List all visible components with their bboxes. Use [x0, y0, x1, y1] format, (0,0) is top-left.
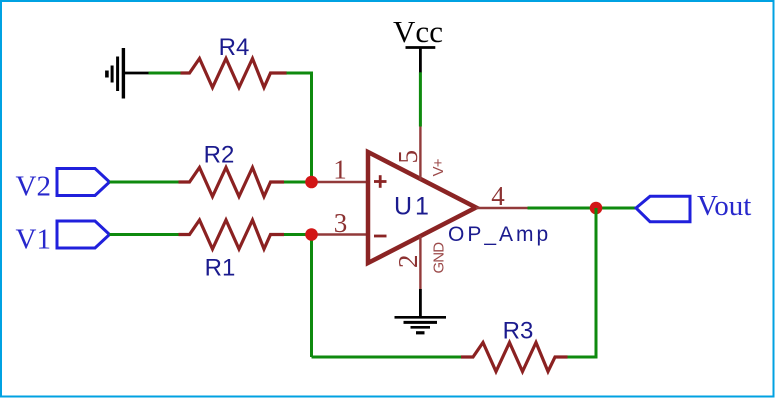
wire U1 pin 4 output: [476, 207, 528, 209]
port V2: [57, 169, 110, 196]
wire pin4 to output node: [528, 207, 637, 210]
node A junction dot: [305, 176, 318, 189]
port Vout: [636, 196, 690, 221]
op-amp minus input mark: [374, 235, 387, 238]
port V1: [57, 221, 110, 248]
wire V1 to R1: [110, 233, 182, 236]
svg-text:U1: U1: [394, 193, 432, 221]
wire U1 pin 1: [312, 181, 369, 183]
svg-text:OP_Amp: OP_Amp: [448, 223, 551, 246]
wire R1 to node B: [284, 233, 312, 236]
ground GND2 (below op-amp): [395, 289, 447, 333]
svg-text:Vout: Vout: [697, 190, 751, 222]
node OUT junction dot: [590, 202, 603, 215]
resistor R2: [179, 168, 285, 197]
node B junction dot: [305, 228, 318, 241]
power Vcc symbol: [406, 48, 436, 73]
svg-text:V1: V1: [16, 224, 51, 256]
wire U1 pin 2 (GND pin): [419, 236, 421, 290]
svg-text:2: 2: [393, 255, 423, 269]
op-amp plus input mark: [374, 175, 387, 188]
ground GND1 (top-left, rotated earth symbol): [107, 48, 149, 99]
svg-text:4: 4: [491, 181, 505, 211]
wire R2 to node A: [284, 181, 312, 184]
resistor R4: [181, 59, 287, 88]
svg-text:5: 5: [393, 150, 423, 164]
svg-text:V+: V+: [430, 158, 447, 176]
svg-text:GND: GND: [431, 242, 448, 274]
wire R4 to node A (right corner, down): [287, 73, 312, 182]
svg-text:R3: R3: [503, 318, 534, 345]
wire bottom bus to R3: [312, 356, 462, 359]
wire GND1 to R4: [149, 72, 182, 75]
resistor R3: [461, 343, 568, 372]
wire output node down to R3: [567, 208, 596, 357]
resistor R1: [179, 220, 285, 249]
wire U1 pin 5 (V+): [419, 127, 421, 181]
svg-text:R2: R2: [204, 142, 235, 169]
wire V2 to R2: [110, 181, 182, 184]
svg-text:R1: R1: [205, 255, 236, 282]
op-amp U1 triangle: [368, 152, 476, 263]
wire Vcc to U1 pin 5: [419, 72, 422, 126]
wire U1 pin 3: [312, 233, 369, 235]
wire node B down to bottom bus: [310, 235, 313, 358]
svg-text:1: 1: [333, 155, 347, 185]
svg-text:Vcc: Vcc: [393, 14, 443, 49]
svg-text:R4: R4: [219, 34, 250, 61]
svg-text:V2: V2: [16, 171, 51, 203]
svg-text:3: 3: [334, 208, 348, 238]
